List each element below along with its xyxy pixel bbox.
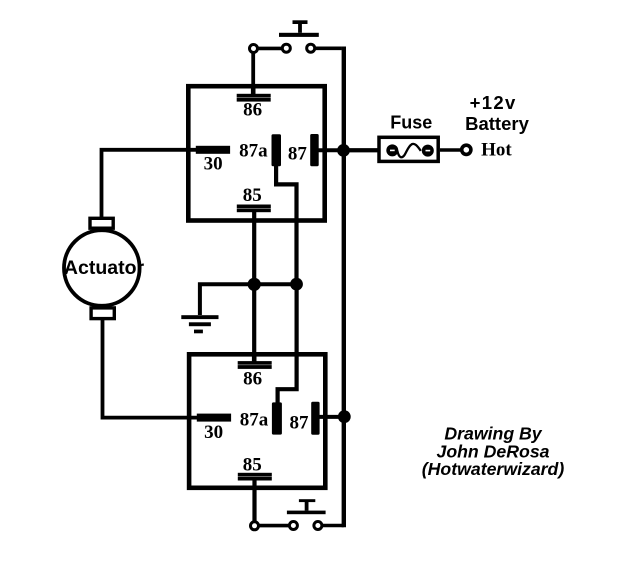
fuse F1 box xyxy=(379,137,438,161)
node D junction (fuse feed / right bus) xyxy=(337,144,350,157)
relay K2 terminal 30 xyxy=(197,414,231,422)
SW2 terminal circle middle xyxy=(289,522,297,530)
pushbutton switch SW1 (top momentary) xyxy=(279,20,319,37)
node A junction (85 / ground) xyxy=(248,278,261,291)
wire node A to relay K2 pin 86 xyxy=(252,284,256,362)
battery terminal circle xyxy=(462,145,471,154)
svg-text:85: 85 xyxy=(243,185,262,206)
wire SW1 right contact to right bus xyxy=(311,46,342,50)
svg-text:87: 87 xyxy=(290,413,310,434)
relay K1 terminal 87a xyxy=(272,134,282,166)
relay K1 terminal 86 xyxy=(237,94,271,102)
wire node B into relay K2 (to 87a) xyxy=(278,284,297,403)
relay K1 terminal 85 xyxy=(237,205,271,213)
wire SW1 left contact to middle contact xyxy=(254,47,287,51)
relay K2 terminal 87a xyxy=(272,402,282,434)
wire ground link xyxy=(200,284,297,315)
SW1 terminal circle right xyxy=(307,44,315,52)
fuse F1 right end cap xyxy=(422,145,434,157)
svg-text:87a: 87a xyxy=(239,140,268,161)
wire actuator to relay K1 pin 30 xyxy=(102,150,197,219)
wire actuator to relay K2 pin 30 xyxy=(103,319,198,418)
SW1 terminal circle middle xyxy=(282,44,290,52)
svg-text:(Hotwaterwizard): (Hotwaterwizard) xyxy=(422,459,565,479)
svg-text:+12v: +12v xyxy=(470,92,517,113)
relay K1 terminal 30 xyxy=(196,146,230,154)
node C junction (87 K2 / right bus) xyxy=(338,410,351,423)
svg-text:Battery: Battery xyxy=(465,113,529,134)
actuator M1 body xyxy=(64,230,140,306)
wire SW1 to relay K1 pin 86 xyxy=(251,53,255,88)
relay K2 pin 86 stem xyxy=(252,356,257,363)
svg-text:Actuator: Actuator xyxy=(64,257,145,279)
svg-text:Fuse: Fuse xyxy=(390,112,432,132)
svg-text:86: 86 xyxy=(243,369,262,390)
node B junction (87a bus / ground) xyxy=(290,278,303,291)
ground xyxy=(181,315,218,333)
svg-text:87a: 87a xyxy=(240,409,269,430)
relay K1 terminal 87 xyxy=(310,134,319,166)
relay K2 terminal 85 xyxy=(238,473,272,481)
relay K2 box xyxy=(189,354,325,488)
wire K1 87 to fuse xyxy=(317,148,378,152)
fuse F1 left end cap xyxy=(386,144,398,156)
wire SW2 left contact to middle contact xyxy=(255,524,294,528)
svg-text:30: 30 xyxy=(204,154,223,175)
wire K2 85 to SW2 xyxy=(252,479,256,521)
fuse F1 element squiggle xyxy=(397,144,421,157)
actuator M1 bottom terminal xyxy=(91,308,114,319)
svg-text:86: 86 xyxy=(243,100,262,121)
wire K2 87 to right bus xyxy=(318,415,344,419)
SW1 terminal circle left xyxy=(250,45,258,53)
svg-text:87: 87 xyxy=(288,144,308,165)
relay K2 terminal 87 xyxy=(311,402,319,435)
relay K2 terminal 86 xyxy=(238,361,272,369)
wire K1 87a to lower bus xyxy=(276,165,296,284)
wire K1 85 down to ground node xyxy=(252,211,256,284)
actuator M1 top terminal xyxy=(90,218,113,228)
wire SW2 right contact to right bus xyxy=(318,524,344,528)
SW2 terminal circle right xyxy=(314,522,322,530)
svg-text:Hot: Hot xyxy=(481,139,512,160)
wire fuse to battery terminal xyxy=(440,148,461,152)
relay K1 box xyxy=(188,86,324,220)
right bus wire (battery feed, SW1 to SW2) xyxy=(342,47,346,528)
pushbutton switch SW2 (bottom momentary) xyxy=(287,499,326,514)
svg-text:30: 30 xyxy=(204,422,223,443)
svg-text:85: 85 xyxy=(243,454,262,475)
SW2 terminal circle left xyxy=(251,522,259,530)
relay K1 pin 86 stem xyxy=(251,88,256,95)
wire node D to fuse xyxy=(344,148,379,152)
